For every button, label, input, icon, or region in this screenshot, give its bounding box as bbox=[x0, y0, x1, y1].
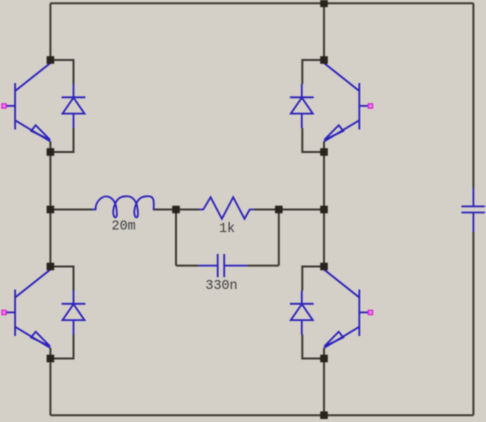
wire right column middle bbox=[323, 152, 325, 267]
svg-text:330n: 330n bbox=[205, 279, 237, 294]
svg-text:1k: 1k bbox=[219, 222, 235, 237]
wire node B to right column bbox=[279, 209, 324, 211]
node A (inductor-resistor) bbox=[172, 206, 180, 214]
wire diode D4 hooks bbox=[302, 267, 324, 359]
node junction bottom rail bbox=[320, 411, 328, 419]
wire node A down bbox=[175, 210, 177, 266]
node junction bottom-left emitter bbox=[47, 355, 55, 363]
label R1 value 1k bbox=[219, 222, 235, 237]
diode D2 bbox=[290, 84, 314, 128]
node junction top-left emitter bbox=[47, 148, 55, 156]
node B (resistor-right column) bbox=[275, 206, 283, 214]
wire resistor to node B bbox=[254, 209, 279, 211]
wire diode D3 hooks bbox=[50, 267, 73, 359]
capacitor C2 bbox=[461, 188, 485, 232]
node junction right mid bbox=[320, 206, 328, 214]
transistor Q3 (bottom-left) bbox=[2, 270, 51, 356]
node junction top-right collector bbox=[320, 56, 328, 64]
diode D4 bbox=[290, 291, 314, 335]
wire right column bottom bbox=[323, 359, 325, 416]
svg-text:20m: 20m bbox=[112, 220, 136, 235]
wire top rail bbox=[50, 2, 473, 4]
wire node A to resistor bbox=[176, 209, 199, 211]
wire diode D2 hooks bbox=[302, 60, 324, 152]
node junction top-left collector bbox=[47, 56, 55, 64]
wire bottom rail bbox=[50, 414, 473, 416]
wire left column top bbox=[49, 3, 51, 60]
node junction top rail bbox=[320, 0, 328, 7]
diode D1 bbox=[62, 84, 86, 128]
inductor L1 bbox=[92, 196, 155, 217]
wire up to node B bbox=[278, 210, 280, 266]
node junction bottom-right emitter bbox=[320, 355, 328, 363]
label C1 value 330n bbox=[205, 279, 237, 294]
wire inductor to node A bbox=[155, 209, 177, 211]
node junction bottom-right collector bbox=[320, 263, 328, 271]
wire right rail lower bbox=[472, 232, 474, 415]
wire left column bottom bbox=[49, 359, 51, 416]
transistor Q1 (top-left) bbox=[2, 63, 51, 149]
diode D3 bbox=[62, 291, 86, 335]
wire left column middle bbox=[49, 152, 51, 267]
transistor Q2 (top-right) bbox=[324, 63, 373, 149]
node junction top-right emitter bbox=[320, 148, 328, 156]
node junction bottom-left collector bbox=[47, 263, 55, 271]
node junction left mid (inductor tap) bbox=[47, 206, 55, 214]
wire right column top bbox=[323, 3, 325, 60]
wire capacitor C1 right bbox=[247, 265, 278, 267]
wire diode D1 hooks bbox=[50, 60, 73, 152]
capacitor C1 bbox=[198, 254, 247, 277]
wire right rail upper bbox=[472, 3, 474, 188]
wire to capacitor C1 left bbox=[176, 265, 198, 267]
transistor Q4 (bottom-right) bbox=[324, 270, 373, 356]
wire node to inductor bbox=[50, 209, 92, 211]
resistor R1 bbox=[199, 197, 254, 219]
label L1 value 20m bbox=[112, 220, 136, 235]
